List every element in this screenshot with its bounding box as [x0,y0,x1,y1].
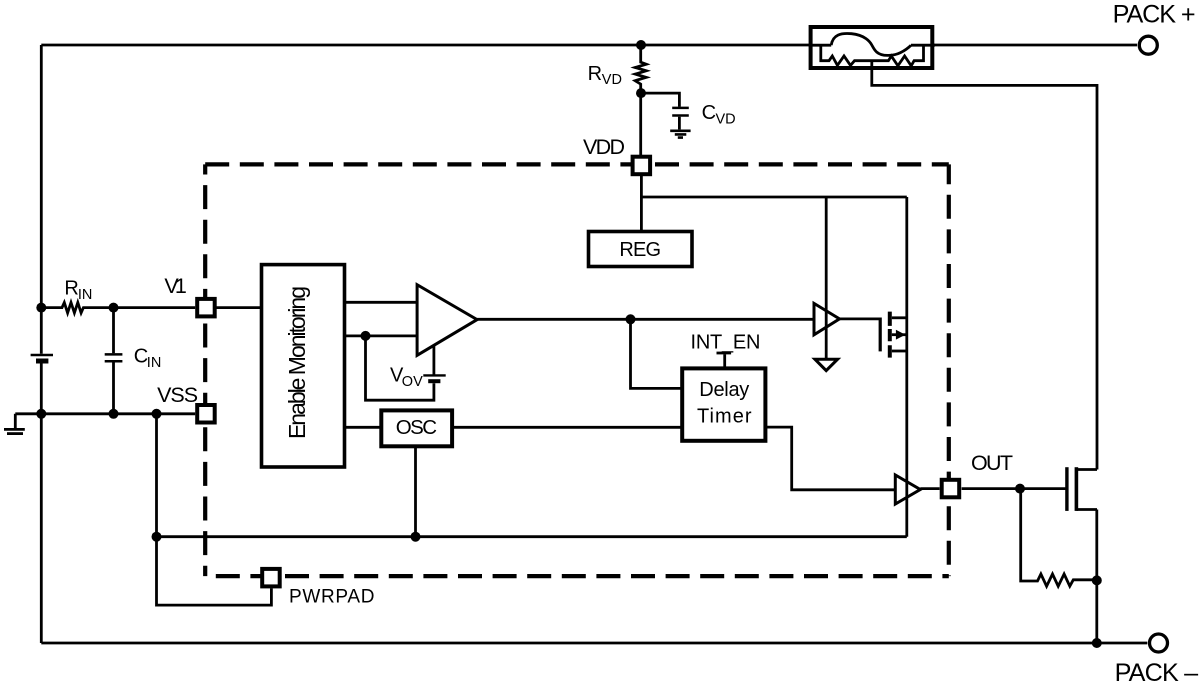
svg-text:R: R [588,63,602,85]
svg-text:IN: IN [147,355,162,371]
svg-text:OUT: OUT [971,451,1013,475]
svg-text:PACK +: PACK + [1113,0,1196,28]
svg-text:REG: REG [619,239,661,261]
svg-text:OV: OV [402,374,423,390]
svg-text:VDD: VDD [583,135,625,159]
svg-text:VD: VD [602,72,622,88]
svg-text:OSC: OSC [396,416,437,439]
svg-text:V1: V1 [164,274,186,298]
svg-text:PACK –: PACK – [1115,659,1199,686]
svg-text:Enable Monitoring: Enable Monitoring [284,286,310,439]
svg-text:INT_EN: INT_EN [691,332,761,354]
svg-text:Delay: Delay [699,379,749,401]
svg-text:IN: IN [78,287,93,303]
svg-text:Timer: Timer [697,406,752,428]
svg-text:VSS: VSS [157,383,198,407]
svg-text:PWRPAD: PWRPAD [289,587,375,608]
svg-text:VD: VD [716,111,736,127]
svg-text:R: R [64,278,78,300]
svg-text:C: C [702,102,716,124]
